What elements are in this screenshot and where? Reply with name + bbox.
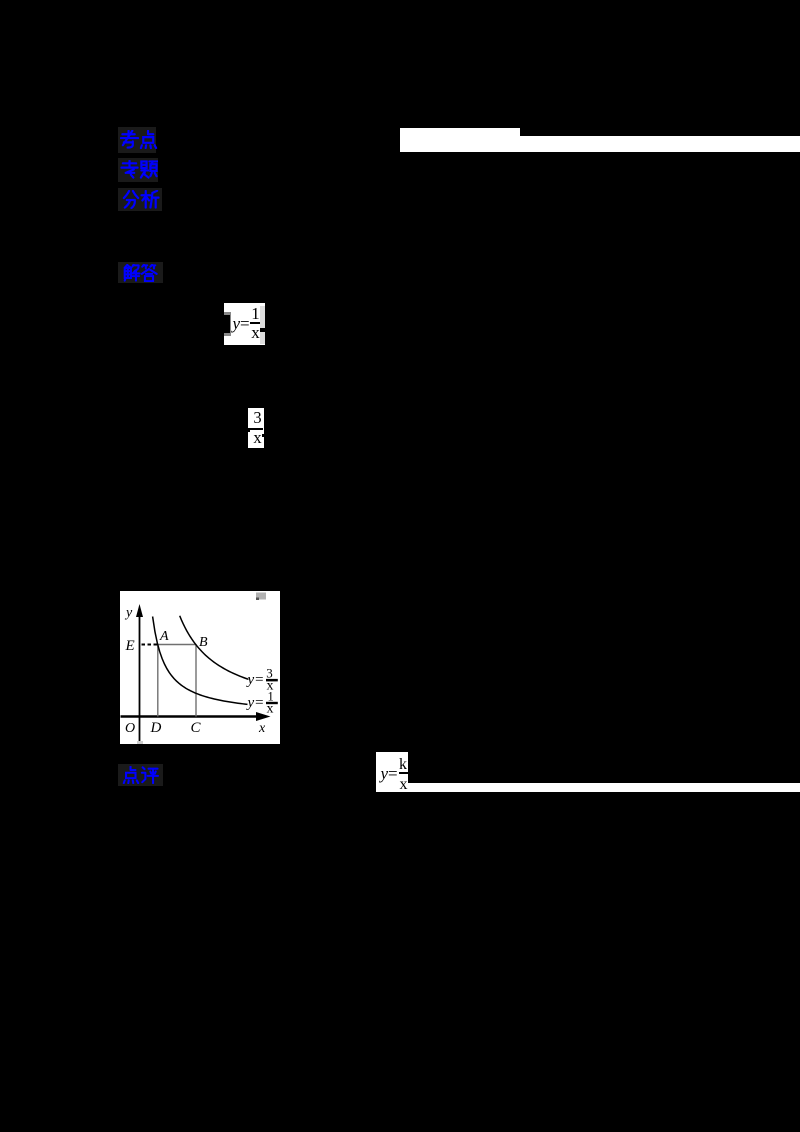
svg-text:O: O (125, 721, 135, 736)
svg-text:C: C (191, 720, 202, 736)
svg-text:y=: y= (246, 672, 265, 688)
svg-text:A: A (159, 629, 169, 644)
svg-text:B: B (199, 635, 208, 650)
svg-text:x: x (258, 721, 266, 736)
svg-text:y=: y= (246, 695, 265, 711)
svg-text:x: x (267, 701, 274, 716)
svg-text:E: E (125, 638, 135, 654)
svg-text:y: y (124, 606, 133, 621)
svg-text:D: D (150, 720, 162, 736)
